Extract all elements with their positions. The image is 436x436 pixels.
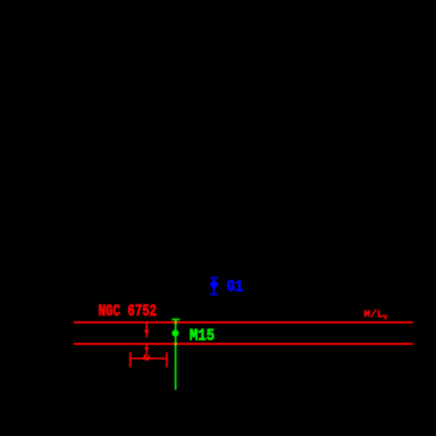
svg-text:M15: M15: [190, 326, 215, 345]
svg-text:M/L: M/L: [364, 309, 383, 321]
svg-text:NGC 6752: NGC 6752: [98, 301, 157, 320]
svg-text:G1: G1: [227, 277, 243, 296]
